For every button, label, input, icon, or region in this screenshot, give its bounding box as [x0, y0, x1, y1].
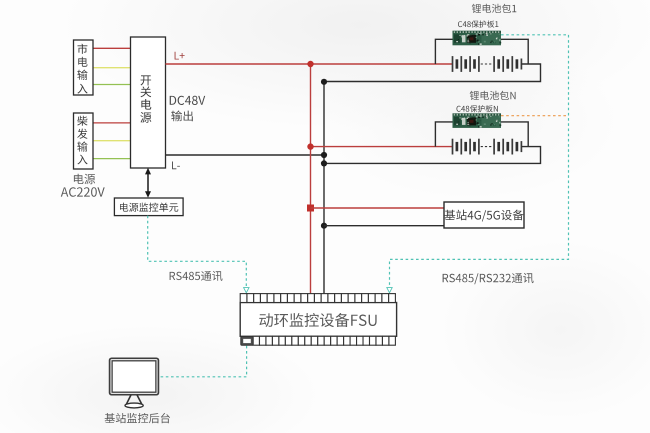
wire L- 48V negative (black) to bus: [166, 154, 325, 156]
junction black bus / pack1 return: [321, 79, 327, 85]
box 电源监控单元 (power monitoring unit): [114, 198, 183, 216]
wire black bus vertical: [323, 82, 325, 294]
wire pcbN left lead: [435, 122, 452, 147]
label L-: [172, 162, 180, 170]
junction square red bus / 4G-5G feed: [307, 205, 314, 212]
box 开关电源 (switch-mode power supply): [131, 37, 166, 168]
label 锂电池包1 title: [472, 4, 517, 13]
wire pack1 negative return: [324, 64, 541, 82]
wire genset L (red) 柴发-开关电源: [93, 122, 131, 124]
arrow double-headed 开关电源-电源监控单元: [145, 168, 151, 198]
wire mains PE (green): [93, 84, 131, 86]
wire red bus vertical: [310, 64, 312, 294]
comm line packN board to riser (orange dashed): [501, 115, 569, 117]
junction black bus / packN return: [321, 160, 327, 166]
wire pcbN right lead: [501, 122, 528, 147]
device 动环监控设备FSU with pin rows and port: [240, 294, 396, 346]
box 柴发输入 (diesel generator input): [74, 113, 94, 169]
comm line RS485/RS232 packs to FSU (teal dashed): [390, 35, 569, 289]
label DC48V 输出: [170, 96, 206, 122]
wire red branch to battery pack N: [311, 146, 453, 148]
junction red bus / pack N feed: [307, 143, 313, 149]
junction black bus / 4G-5G return: [321, 223, 327, 229]
arrowhead into FSU right: [387, 288, 392, 293]
wire red feed to 4G/5G device: [311, 207, 445, 209]
arrowhead into FSU left: [244, 288, 249, 293]
wire genset PE (green): [93, 158, 131, 160]
junction red bus / L+: [307, 61, 313, 67]
wire genset N (yellow): [93, 140, 131, 142]
label RS485/RS232通讯: [443, 273, 534, 284]
wire mains N (yellow): [93, 67, 131, 69]
label RS485通讯: [170, 271, 223, 281]
label C48保护板N: [457, 105, 498, 112]
pcb C48 protection board 1: [453, 31, 502, 46]
label L+: [175, 52, 185, 60]
wire pcb1 left lead: [435, 39, 452, 64]
comm line RS485 电源监控单元 to FSU (teal dashed): [148, 216, 247, 289]
label 电源 AC220V: [61, 174, 105, 197]
battery cells pack 1: [453, 56, 522, 72]
box 基站4G/5G设备: [444, 202, 524, 228]
junction black bus / L-: [321, 152, 327, 158]
wire pcb1 right lead: [501, 39, 528, 64]
battery cells pack N: [453, 139, 522, 155]
monitor 基站监控后台 screen: [110, 358, 159, 408]
comm line FSU to monitor backend (teal dashed): [159, 346, 247, 377]
label 基站监控后台: [105, 413, 170, 423]
pcb C48 protection board N: [453, 113, 502, 128]
box 市电输入 (mains input): [74, 40, 94, 95]
wire black return from 4G/5G device: [324, 225, 444, 227]
wire L+ 48V positive rail (red): [166, 63, 453, 65]
label C48保护板1: [458, 20, 498, 27]
label 锂电池包N title: [470, 91, 516, 100]
wire mains L (red) 市电-开关电源: [93, 47, 131, 49]
wire packN negative return: [324, 147, 541, 164]
